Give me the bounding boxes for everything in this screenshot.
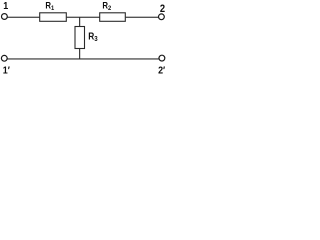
resistor R3 label	[88, 31, 98, 43]
terminal 1 circle	[2, 14, 8, 20]
wire: top rail, terminal 1 to R1	[7, 17, 39, 18]
terminal 2' circle	[159, 55, 165, 61]
node label 2	[160, 3, 165, 15]
svg-text:R3: R3	[88, 31, 98, 43]
resistor R1 label	[45, 0, 54, 12]
svg-text:2′: 2′	[158, 65, 166, 76]
wire: top rail, R2 to terminal 2	[126, 17, 159, 18]
svg-text:2: 2	[160, 3, 165, 15]
resistor R2 label	[102, 0, 111, 12]
resistor R3 body	[75, 27, 85, 49]
wire: vertical from top rail node down to R3	[79, 17, 80, 27]
terminal 1' circle	[1, 55, 7, 61]
svg-text:1: 1	[3, 1, 8, 13]
wire: bottom rail, terminal 1' to terminal 2'	[7, 58, 159, 59]
resistor R2 body	[100, 13, 126, 21]
node label 1	[3, 1, 8, 13]
terminal 2 circle	[159, 14, 165, 20]
wire: top rail, R1 to R2 through node	[67, 17, 100, 18]
svg-text:R2: R2	[102, 0, 111, 12]
svg-text:R1: R1	[45, 0, 54, 12]
resistor R1 body	[40, 13, 67, 21]
node label 2'	[158, 65, 166, 77]
svg-text:1′: 1′	[3, 65, 11, 76]
wire: vertical from R3 down to bottom rail	[79, 49, 80, 59]
node label 1'	[3, 65, 11, 77]
